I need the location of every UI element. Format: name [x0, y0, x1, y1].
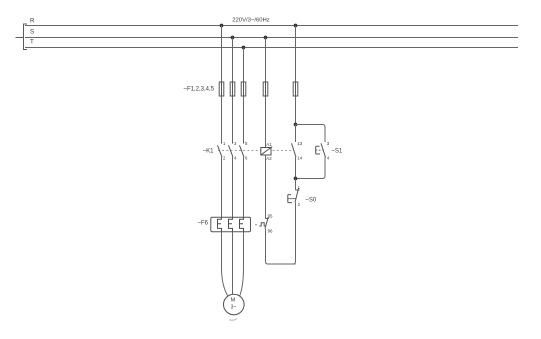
line R	[25, 25, 518, 27]
svg-text:R: R	[30, 18, 35, 25]
fuse F5	[293, 82, 298, 96]
wire phase1 contact to F6	[221, 157, 223, 218]
node tap T phase3	[242, 46, 246, 50]
svg-text:2: 2	[298, 202, 301, 207]
svg-text:4: 4	[327, 155, 330, 160]
svg-text:A2: A2	[266, 156, 272, 161]
wire S0 down to across	[293, 203, 296, 265]
wire K1 aux upper	[295, 125, 297, 143]
contactor K1 mechanical dashed link	[218, 150, 293, 152]
wire control S drop	[265, 38, 267, 83]
wire K1 aux lower	[295, 157, 297, 179]
svg-text:3: 3	[234, 141, 237, 146]
svg-text:–S1: –S1	[332, 149, 343, 155]
wire control R column to junction	[295, 96, 297, 125]
svg-text:A1: A1	[266, 142, 272, 147]
svg-text:–S0: –S0	[306, 197, 317, 203]
heater element 3	[240, 217, 244, 232]
wire phase2 to motor	[232, 232, 234, 294]
svg-text:–F1,2,3,4,5: –F1,2,3,4,5	[184, 87, 215, 93]
pushbutton S0 NC	[288, 188, 300, 203]
faint mark below motor	[229, 319, 237, 321]
node tap R control	[294, 24, 298, 28]
fuse F1	[219, 82, 224, 96]
svg-text:5: 5	[245, 141, 248, 146]
svg-text:2: 2	[223, 156, 226, 161]
fuse F3	[241, 82, 246, 96]
wire coil to overload contact	[265, 155, 267, 219]
svg-text:–K1: –K1	[203, 149, 214, 155]
svg-text:220V/3~/60Hz: 220V/3~/60Hz	[232, 18, 270, 24]
svg-text:13: 13	[297, 141, 302, 146]
wire phase1 to motor	[222, 232, 228, 296]
svg-text:1: 1	[223, 141, 226, 146]
node junction bottom control	[294, 177, 298, 181]
wire phase2 fuse to contact	[232, 96, 234, 143]
line T	[25, 47, 518, 49]
svg-text:3~: 3~	[231, 304, 237, 310]
svg-text:–F6: –F6	[198, 221, 209, 227]
wire branch top to S1	[296, 125, 326, 143]
wire phase1 drop	[221, 26, 223, 83]
wire phase3 fuse to contact	[243, 96, 245, 143]
overload F6 box	[211, 217, 251, 232]
contact K1 aux 13-14	[292, 143, 297, 157]
overload trip link	[255, 224, 257, 226]
heater element 2	[229, 217, 233, 232]
bracket tick	[16, 37, 24, 39]
contact K1 pole 3	[240, 142, 245, 158]
wire control R drop	[295, 26, 297, 83]
line S	[25, 37, 518, 39]
svg-text:4: 4	[234, 156, 237, 161]
coil K1	[261, 147, 272, 155]
pushbutton S1	[316, 143, 326, 157]
wire phase3 drop	[243, 48, 245, 83]
svg-text:96: 96	[268, 228, 273, 233]
contact K1 pole 1	[218, 142, 223, 158]
node tap R phase1	[220, 24, 224, 28]
wire control coil column upper	[265, 96, 267, 148]
fuse F2	[230, 82, 235, 96]
contact F6 95-96 NC	[265, 217, 269, 229]
contact K1 pole 2	[229, 142, 234, 158]
svg-text:T: T	[30, 39, 34, 46]
wire phase3 contact to F6	[243, 157, 245, 218]
heater element 1	[218, 217, 222, 232]
bus bracket left	[24, 24, 28, 50]
svg-text:95: 95	[268, 214, 273, 219]
wire phase1 fuse to contact	[221, 96, 223, 143]
node tap S control	[264, 36, 268, 40]
wire phase2 contact to F6	[232, 157, 234, 218]
svg-text:S: S	[30, 29, 34, 36]
svg-text:14: 14	[297, 155, 302, 160]
node tap S phase2	[231, 36, 235, 40]
svg-text:1: 1	[298, 185, 301, 190]
wire overload contact down and across	[266, 229, 296, 264]
wire phase2 drop	[232, 38, 234, 83]
svg-text:M: M	[231, 298, 236, 304]
wire junction to S0	[295, 179, 297, 191]
svg-text:6: 6	[245, 156, 248, 161]
node junction top control	[294, 123, 298, 127]
wire phase3 to motor	[240, 232, 244, 296]
wire S1 lower	[296, 157, 326, 179]
fuse F4	[263, 82, 268, 96]
motor M1 circle	[224, 294, 245, 315]
svg-text:3: 3	[327, 141, 330, 146]
